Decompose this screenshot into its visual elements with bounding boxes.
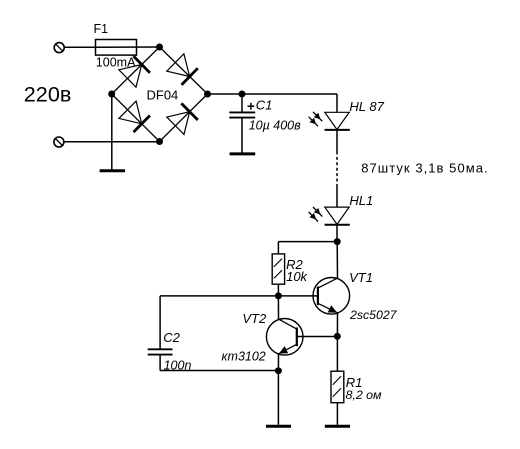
resistor R2 xyxy=(272,254,284,284)
LED HL1 arrows xyxy=(309,207,323,222)
label VT1 xyxy=(349,270,373,285)
label C2 xyxy=(163,330,180,345)
svg-text:100n: 100n xyxy=(164,358,192,372)
label R1 value 8,2 ом xyxy=(346,388,383,402)
svg-text:C2: C2 xyxy=(163,330,180,345)
node VT1 emitter / VT2 base junction xyxy=(334,333,341,340)
label VT1 type 2sc5027 xyxy=(349,308,398,322)
fuse F1 xyxy=(96,40,160,56)
node bridge right xyxy=(204,91,211,98)
svg-text:10µ 400в: 10µ 400в xyxy=(249,118,301,132)
svg-text:2sc5027: 2sc5027 xyxy=(349,308,398,322)
LED HL1 xyxy=(325,207,350,225)
wire VT1 emitter to R1 xyxy=(336,336,338,371)
node bridge top xyxy=(156,44,163,51)
wire VT2 collector up xyxy=(277,296,279,319)
wire R2 bottom to base net xyxy=(277,284,279,296)
wire VT1 collector up xyxy=(336,242,338,279)
label R2 value 10k xyxy=(286,269,308,284)
AC input terminal top xyxy=(54,43,64,53)
bridge diode D3 (left node to bottom node) xyxy=(119,101,150,132)
bridge arm wire bottom-left xyxy=(112,94,160,142)
wire above HL1 xyxy=(336,186,338,208)
svg-text:C1: C1 xyxy=(256,97,273,112)
label HL1 xyxy=(349,193,373,208)
label 100mA xyxy=(96,56,136,70)
label VT2 xyxy=(242,311,267,326)
svg-text:87штук 3,1в 50ма.: 87штук 3,1в 50ма. xyxy=(361,161,488,176)
ground (C1) xyxy=(230,152,256,155)
bridge arm wire top-right xyxy=(160,47,208,94)
LED HL87 arrows xyxy=(309,112,323,127)
wire top of R2 to collector node xyxy=(278,242,337,254)
label R1 xyxy=(346,375,363,390)
node R2/collector junction xyxy=(334,238,341,245)
svg-text:F1: F1 xyxy=(94,22,109,36)
svg-text:220в: 220в xyxy=(24,81,72,106)
wire DC+ bus xyxy=(208,94,338,112)
node bridge bottom xyxy=(156,138,163,145)
svg-text:8,2 ом: 8,2 ом xyxy=(346,388,383,402)
svg-text:VT1: VT1 xyxy=(349,270,373,285)
wire below HL87 xyxy=(336,130,338,152)
label HL 87 xyxy=(349,99,384,114)
label VT2 type кт3102 xyxy=(222,350,266,364)
label F1 xyxy=(94,22,109,36)
LED HL87 xyxy=(325,112,350,130)
bridge diode D4 (bottom node to right node) xyxy=(167,103,198,134)
node VT2 emitter junction xyxy=(275,367,282,374)
bridge diode D1 (left node to top node) xyxy=(119,56,150,87)
ground (R1) xyxy=(325,425,350,428)
transistor VT1 xyxy=(313,278,350,315)
wire VT2 emitter to ground xyxy=(277,371,279,425)
label C2 value 100n xyxy=(164,358,192,372)
wire VT2 base xyxy=(297,336,338,338)
ground (VT2/C2) xyxy=(266,425,291,428)
ground (bridge negative) xyxy=(100,169,125,172)
label C1 xyxy=(256,97,273,112)
svg-text:HL1: HL1 xyxy=(349,193,373,208)
wire terminal to bridge bottom node xyxy=(64,141,160,143)
svg-text:HL 87: HL 87 xyxy=(349,99,384,114)
transistor VT2 xyxy=(266,319,303,356)
AC input terminal bottom xyxy=(54,137,64,147)
wire bridge left node to ground xyxy=(111,94,113,170)
wire VT2 emitter down xyxy=(277,354,279,371)
label 87 LEDs note xyxy=(361,161,488,176)
label 220в xyxy=(24,81,72,106)
svg-text:DF04: DF04 xyxy=(147,87,179,102)
capacitor C1 xyxy=(229,94,255,153)
label + polarity C1 xyxy=(248,103,255,110)
resistor R1 xyxy=(331,371,344,403)
label DF04 bridge rectifier xyxy=(147,87,179,102)
bridge arm wire top-left xyxy=(112,47,160,94)
bridge arm wire bottom-right xyxy=(160,94,208,142)
bridge diode D2 (top node to right node) xyxy=(167,54,198,85)
wire HL1 to collector node xyxy=(336,225,338,242)
dashed wire (LED chain) xyxy=(336,152,338,186)
label C1 value xyxy=(249,118,301,132)
wire base net horizontal xyxy=(160,295,318,297)
node base-net junction xyxy=(275,292,282,299)
svg-text:кт3102: кт3102 xyxy=(222,350,266,364)
wire terminal to fuse xyxy=(64,46,95,48)
label R2 xyxy=(286,257,303,272)
wire R1 to ground xyxy=(336,403,338,425)
svg-text:VT2: VT2 xyxy=(242,311,267,326)
capacitor C2 xyxy=(148,296,279,371)
wire VT1 emitter down xyxy=(336,313,338,337)
svg-text:10k: 10k xyxy=(286,269,308,284)
node C1 junction xyxy=(239,91,246,98)
node bridge left xyxy=(108,91,115,98)
